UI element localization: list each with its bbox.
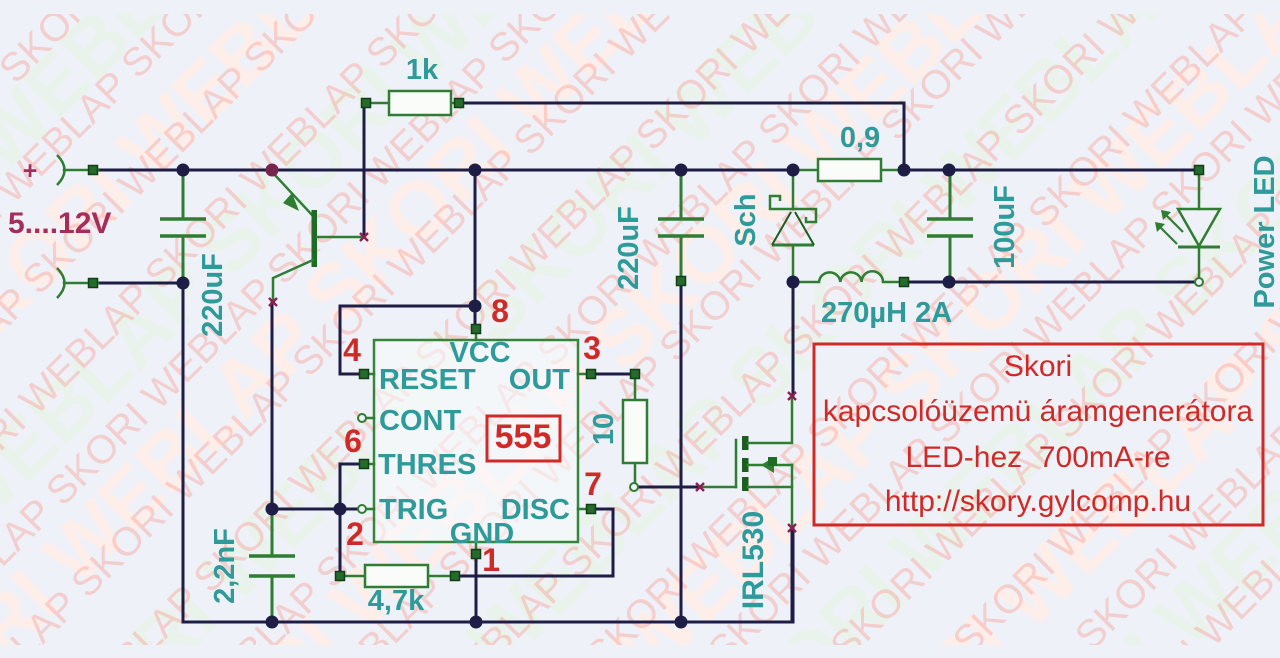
svg-text:3: 3 — [583, 330, 601, 366]
svg-text:5....12V: 5....12V — [8, 207, 111, 240]
svg-text:IRL530: IRL530 — [737, 511, 770, 609]
svg-text:10: 10 — [588, 413, 620, 445]
svg-text:THRES: THRES — [378, 449, 476, 481]
svg-text:4: 4 — [343, 332, 361, 368]
svg-text:+: + — [23, 157, 38, 185]
svg-text:Sch: Sch — [730, 193, 762, 246]
svg-text:1: 1 — [482, 542, 500, 578]
svg-text:Skori: Skori — [1004, 350, 1072, 383]
svg-text:1k: 1k — [406, 54, 439, 86]
svg-text:2: 2 — [346, 516, 364, 552]
svg-text:OUT: OUT — [509, 364, 571, 396]
svg-text:220uF: 220uF — [197, 253, 229, 337]
svg-text:Power LED: Power LED — [1249, 155, 1280, 308]
svg-text:http://skory.gylcomp.hu: http://skory.gylcomp.hu — [885, 485, 1191, 518]
svg-text:2,2nF: 2,2nF — [209, 528, 241, 604]
svg-text:270µH 2A: 270µH 2A — [821, 297, 952, 329]
svg-text:8: 8 — [491, 293, 509, 329]
svg-text:kapcsolóüzemü áramgenerátora: kapcsolóüzemü áramgenerátora — [823, 395, 1254, 428]
svg-text:CONT: CONT — [379, 405, 461, 437]
svg-text:RESET: RESET — [379, 364, 476, 396]
svg-text:TRIG: TRIG — [379, 494, 448, 526]
svg-text:220uF: 220uF — [613, 206, 645, 290]
svg-text:555: 555 — [495, 418, 552, 456]
svg-text:LED-hez 700mA-re: LED-hez 700mA-re — [905, 441, 1170, 474]
svg-text:100uF: 100uF — [989, 185, 1021, 269]
svg-text:0,9: 0,9 — [840, 122, 880, 154]
svg-text:6: 6 — [344, 423, 362, 459]
svg-text:4,7k: 4,7k — [368, 585, 425, 617]
svg-text:7: 7 — [584, 466, 602, 502]
